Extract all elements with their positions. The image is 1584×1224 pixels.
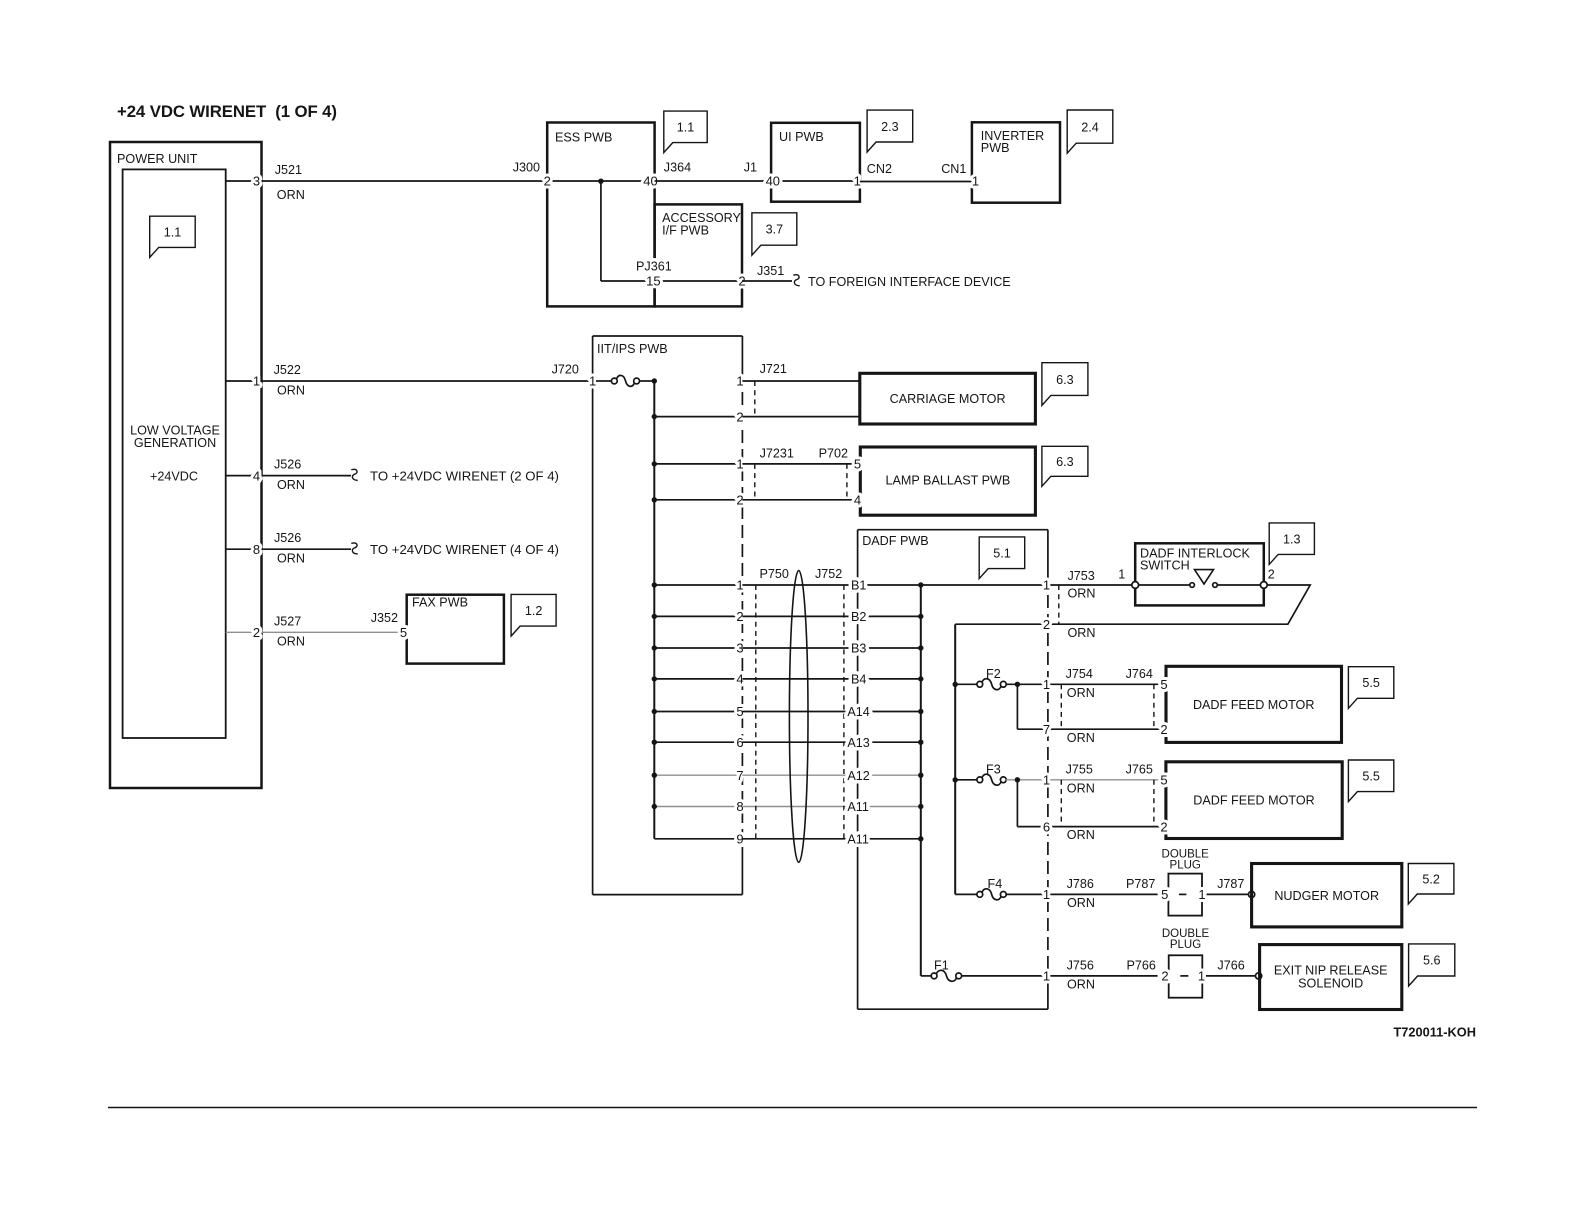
- svg-text:J766: J766: [1217, 959, 1244, 973]
- label J521 / ORN: [275, 163, 305, 202]
- double plug (P787-J787): [1161, 848, 1209, 915]
- svg-text:DADF FEED MOTOR: DADF FEED MOTOR: [1193, 698, 1315, 712]
- wire F3 to J755 pin1 / motor pin5 (gray): [1006, 779, 1166, 781]
- ribbon cable loop (ellipse): [789, 571, 808, 863]
- switch pin 1 terminal: [1118, 567, 1138, 588]
- wire branch to J754 pin7: [1017, 684, 1166, 729]
- wire J7231 pin2 to lamp ballast pin4: [742, 499, 860, 501]
- bus junction at y=616.4: [652, 614, 657, 619]
- ribbon wire B1: [742, 584, 920, 586]
- svg-text:ORN: ORN: [277, 552, 305, 566]
- svg-text:2: 2: [544, 174, 551, 189]
- ACCESSORY pin 2: [738, 274, 745, 289]
- ribbon wire A11: [742, 806, 920, 808]
- label CN2: [867, 162, 892, 176]
- wire bus to IIT edge y=775.2: [654, 774, 742, 776]
- svg-text:ORN: ORN: [1067, 896, 1095, 910]
- label P766: [1127, 959, 1156, 973]
- ribbon wire A11: [742, 838, 920, 840]
- label J352: [371, 611, 398, 625]
- svg-text:ORN: ORN: [277, 383, 305, 397]
- label J527 / ORN: [274, 614, 305, 648]
- svg-text:J764: J764: [1126, 667, 1153, 681]
- svg-text:J787: J787: [1217, 877, 1244, 891]
- fuse F2: [955, 667, 1006, 690]
- note callout 6.3 (carriage motor): [1042, 363, 1088, 406]
- label P787: [1126, 877, 1155, 891]
- svg-text:1.2: 1.2: [525, 604, 543, 618]
- svg-text:1.1: 1.1: [164, 226, 182, 240]
- power unit pin 4 (J52x): [226, 468, 262, 483]
- svg-text:1: 1: [1043, 887, 1050, 902]
- DADF branch bus (vertical x=955): [954, 624, 956, 894]
- svg-text:CARRIAGE MOTOR: CARRIAGE MOTOR: [890, 392, 1006, 406]
- ribbon wire A14: [742, 711, 920, 713]
- wire J351 to foreign interface device: [742, 275, 1011, 289]
- EXIT NIP RELEASE SOLENOID box: [1260, 945, 1402, 1010]
- FAX PWB box: [407, 595, 504, 664]
- svg-text:B2: B2: [851, 610, 866, 624]
- svg-text:T720011-KOH: T720011-KOH: [1393, 1024, 1476, 1039]
- svg-text:B4: B4: [851, 673, 866, 687]
- wire J527 to FAX PWB (gray): [262, 631, 404, 633]
- svg-text:40: 40: [766, 174, 780, 189]
- svg-text:1: 1: [1198, 887, 1205, 902]
- connector P750 (dashed column): [756, 567, 789, 839]
- double plug (P766-J766): [1161, 928, 1209, 998]
- svg-text:J756: J756: [1067, 959, 1094, 973]
- INVERTER PWB box: [972, 122, 1060, 202]
- svg-text:SOLENOID: SOLENOID: [1298, 976, 1363, 990]
- LAMP BALLAST pin 5: [854, 457, 861, 472]
- svg-text:1: 1: [1043, 578, 1050, 593]
- svg-text:J765: J765: [1126, 762, 1153, 776]
- branch bus junction F2: [953, 682, 958, 687]
- wire J753 pin 2 return from switch: [955, 585, 1310, 624]
- label J720: [552, 363, 579, 377]
- svg-text:ORN: ORN: [1067, 781, 1095, 795]
- wire bus to IIT edge y=742.2: [654, 741, 742, 743]
- label J526 / ORN (4 of 4): [274, 531, 305, 565]
- wire bus to IIT edge y=806.5: [654, 806, 742, 808]
- svg-text:POWER UNIT: POWER UNIT: [117, 152, 198, 166]
- connector J753 (dashed): [1058, 585, 1060, 624]
- wire junction down to PJ361 pin 15: [601, 181, 655, 281]
- wire J7231 pin1 to lamp ballast pin5: [742, 463, 860, 465]
- svg-text:A14: A14: [847, 705, 869, 719]
- power unit pin 1 (J52x): [226, 374, 262, 389]
- svg-text:5.5: 5.5: [1362, 676, 1380, 690]
- power unit pin 8 (J52x): [226, 542, 262, 557]
- svg-text:J752: J752: [815, 567, 842, 581]
- label J766: [1217, 959, 1244, 973]
- DADF bus junction at y=742.2: [918, 740, 923, 745]
- note callout 2.4: [1067, 110, 1113, 153]
- svg-text:I/F PWB: I/F PWB: [662, 223, 709, 237]
- svg-text:A13: A13: [847, 736, 869, 750]
- svg-text:ORN: ORN: [1067, 978, 1095, 992]
- wire J526 to +24VDC wirenet (2 of 4): [262, 469, 559, 484]
- svg-text:J753: J753: [1068, 569, 1095, 583]
- note callout 5.5 (motor 1): [1348, 667, 1393, 709]
- svg-text:J754: J754: [1066, 667, 1093, 681]
- DADF bus junction at y=648: [918, 645, 923, 650]
- wire bus to IIT edge y=838.8: [654, 838, 742, 840]
- svg-text:J786: J786: [1067, 877, 1094, 891]
- FAX PWB pin 5: [400, 625, 407, 640]
- svg-text:ESS PWB: ESS PWB: [555, 131, 612, 145]
- svg-text:5: 5: [400, 625, 407, 640]
- svg-text:1: 1: [972, 174, 979, 189]
- ribbon wire B2: [742, 615, 920, 617]
- LAMP BALLAST pin 4: [854, 493, 861, 508]
- svg-text:LAMP BALLAST PWB: LAMP BALLAST PWB: [885, 474, 1010, 488]
- svg-text:SWITCH: SWITCH: [1140, 558, 1190, 572]
- svg-text:UI PWB: UI PWB: [779, 130, 824, 144]
- svg-text:4: 4: [854, 493, 861, 508]
- ribbon wire A12: [742, 774, 920, 776]
- ribbon net labels B1-A11: [847, 579, 869, 847]
- DADF FEED MOTOR box 2: [1166, 762, 1342, 839]
- svg-text:1: 1: [1198, 969, 1205, 984]
- svg-text:J7231: J7231: [760, 447, 794, 461]
- svg-text:ORN: ORN: [277, 188, 305, 202]
- svg-text:CN2: CN2: [867, 162, 892, 176]
- svg-text:A11: A11: [847, 800, 868, 814]
- ESS PWB box: [547, 123, 654, 307]
- svg-text:ORN: ORN: [1068, 587, 1096, 601]
- motor2 pins 5,2: [1160, 773, 1167, 835]
- UI PWB pin 1: [854, 174, 861, 189]
- power unit pin 2 (J52x): [226, 625, 262, 640]
- fuse F1: [921, 959, 962, 982]
- svg-text:PWB: PWB: [981, 141, 1010, 155]
- svg-text:FAX PWB: FAX PWB: [412, 595, 468, 609]
- svg-text:5.5: 5.5: [1362, 770, 1380, 784]
- DADF pin 2 (J753): [1043, 617, 1050, 632]
- wire J526 to +24VDC wirenet (4 of 4): [262, 542, 559, 557]
- svg-text:+24VDC: +24VDC: [150, 469, 198, 483]
- ribbon wire B4: [742, 678, 920, 680]
- wire J721 pin2 to carriage motor: [742, 416, 859, 418]
- nudger motor terminal: [1249, 891, 1255, 897]
- ribbon wire A13: [742, 741, 920, 743]
- svg-text:F3: F3: [986, 762, 1001, 776]
- IIT right edge pin numbers: [736, 374, 743, 847]
- power unit box: [110, 142, 262, 788]
- svg-text:1.3: 1.3: [1283, 532, 1301, 546]
- svg-text:J352: J352: [371, 611, 398, 625]
- DADF bus junction at y=711.5: [918, 709, 923, 714]
- wire inside ESS PWB pin2 to pin40: [547, 180, 654, 182]
- wire double plug to nudger motor: [1207, 893, 1249, 895]
- svg-text:6.3: 6.3: [1056, 455, 1074, 469]
- label J786 / ORN: [1067, 877, 1095, 910]
- svg-text:ORN: ORN: [1067, 686, 1095, 700]
- svg-text:A12: A12: [847, 769, 869, 783]
- svg-text:5: 5: [1161, 887, 1168, 902]
- bus junction at y=381: [652, 378, 657, 383]
- svg-text:2: 2: [1160, 722, 1167, 737]
- svg-text:P750: P750: [760, 567, 789, 581]
- bus junction at y=648: [652, 645, 657, 650]
- svg-text:1: 1: [1043, 677, 1050, 692]
- svg-text:1: 1: [253, 374, 260, 389]
- label J787: [1217, 877, 1244, 891]
- svg-text:ORN: ORN: [277, 478, 305, 492]
- svg-text:J755: J755: [1066, 762, 1093, 776]
- UI PWB box: [771, 123, 860, 202]
- svg-text:PLUG: PLUG: [1170, 859, 1201, 871]
- svg-text:1: 1: [1043, 969, 1050, 984]
- svg-text:DADF PWB: DADF PWB: [862, 534, 928, 548]
- svg-text:2: 2: [1043, 617, 1050, 632]
- fuse F3: [955, 762, 1006, 785]
- note callout 5.1: [979, 537, 1024, 579]
- svg-text:J364: J364: [664, 161, 691, 175]
- motor1 pins 5,2: [1160, 677, 1167, 737]
- svg-text:P702: P702: [819, 447, 848, 461]
- bus junction at y=416.6: [652, 414, 657, 419]
- wire J721 pin1 to carriage motor: [742, 380, 859, 382]
- wire inside UI PWB pin40 to pin1: [771, 180, 860, 182]
- svg-text:P766: P766: [1127, 959, 1156, 973]
- svg-text:J521: J521: [275, 163, 302, 177]
- svg-text:1: 1: [1043, 773, 1050, 788]
- power unit pin 3 (J52x): [226, 174, 262, 189]
- DADF bus junction at y=585: [918, 582, 923, 587]
- svg-text:2.3: 2.3: [881, 120, 899, 134]
- wire bus to IIT edge y=416.6: [654, 416, 742, 418]
- DADF INTERLOCK SWITCH box: [1135, 543, 1264, 605]
- svg-text:TO FOREIGN INTERFACE DEVICE: TO FOREIGN INTERFACE DEVICE: [808, 275, 1011, 289]
- branch bus junction F3: [953, 777, 958, 782]
- svg-text:J522: J522: [274, 363, 301, 377]
- svg-text:B3: B3: [851, 642, 866, 656]
- note callout 6.3 (lamp ballast): [1042, 446, 1088, 486]
- switch contacts and actuator: [1139, 570, 1260, 588]
- CARRIAGE MOTOR box: [860, 373, 1036, 424]
- wire bus to IIT edge y=499.8: [654, 499, 742, 501]
- svg-text:5.6: 5.6: [1423, 954, 1441, 968]
- DADF bus junction at y=775.2: [918, 773, 923, 778]
- svg-text:2: 2: [1161, 969, 1168, 984]
- note callout 1.2: [511, 594, 556, 636]
- LAMP BALLAST PWB box: [860, 447, 1035, 515]
- svg-text:ORN: ORN: [1067, 731, 1095, 745]
- DADF pin 1 (J786): [1043, 887, 1050, 902]
- label J526 / ORN (2 of 4): [274, 458, 305, 492]
- connector J721 (dashed): [755, 362, 787, 417]
- label CN1: [941, 162, 966, 176]
- svg-text:J720: J720: [552, 363, 579, 377]
- svg-text:2: 2: [253, 625, 260, 640]
- wire F1 to J756 pin1 / double plug: [961, 975, 1157, 977]
- svg-text:5.2: 5.2: [1422, 872, 1440, 886]
- IIT/IPS PWB box (edges; right edge dashed between pins): [593, 336, 743, 895]
- ribbon wire B3: [742, 647, 920, 649]
- svg-text:J526: J526: [274, 531, 301, 545]
- ACCESSORY I/F PWB box: [655, 204, 742, 306]
- connector J754-J764 (dashed harness): [1061, 667, 1154, 745]
- svg-text:5: 5: [854, 457, 861, 472]
- svg-text:1: 1: [1118, 567, 1125, 581]
- svg-text:1: 1: [854, 174, 861, 189]
- label J1: [744, 161, 757, 175]
- svg-text:J351: J351: [757, 264, 784, 278]
- note callout 5.5 (motor 2): [1348, 760, 1393, 802]
- note callout 1.3: [1269, 523, 1314, 565]
- wire double plug to solenoid: [1206, 975, 1255, 977]
- label J300: [513, 161, 540, 175]
- connector J755-J765 (dashed harness): [1061, 762, 1154, 842]
- bus junction at y=499.8: [652, 497, 657, 502]
- junction node on ESS internal net: [598, 179, 603, 184]
- svg-text:F1: F1: [934, 959, 949, 973]
- bus junction at y=678.9: [652, 676, 657, 681]
- wire bus to IIT edge y=616.4: [654, 615, 742, 617]
- svg-text:TO +24VDC WIRENET (2 OF 4): TO +24VDC WIRENET (2 OF 4): [370, 469, 559, 484]
- junction after F2: [1015, 682, 1020, 687]
- connector J752 (dashed column): [815, 567, 844, 839]
- svg-text:ORN: ORN: [1068, 626, 1096, 640]
- wire branch to J755 pin6: [1017, 780, 1166, 827]
- svg-text:CN1: CN1: [941, 162, 966, 176]
- drawing number T720011-KOH: [1393, 1024, 1476, 1039]
- NUDGER MOTOR box: [1252, 864, 1402, 927]
- solenoid terminal: [1256, 973, 1262, 979]
- connector J7231 (dashed): [755, 447, 794, 500]
- wire bus to IIT edge y=648: [654, 647, 742, 649]
- svg-text:3.7: 3.7: [766, 223, 784, 237]
- svg-text:5.1: 5.1: [993, 546, 1011, 560]
- svg-text:1.1: 1.1: [677, 121, 695, 135]
- svg-text:5: 5: [1160, 773, 1167, 788]
- footer rule: [108, 1107, 1477, 1109]
- svg-text:6: 6: [1043, 819, 1050, 834]
- label J364: [664, 161, 691, 175]
- junction after F3: [1015, 777, 1020, 782]
- ESS PWB pin 40: [643, 174, 657, 189]
- label J753 / ORN: [1068, 569, 1096, 601]
- DADF bus junction at y=678.9: [918, 676, 923, 681]
- svg-text:J527: J527: [274, 614, 301, 628]
- ACCESSORY pin 15: [646, 274, 660, 289]
- DADF feed bus (vertical): [920, 585, 922, 976]
- wire ESS pin40 to UI pin40: [655, 180, 772, 182]
- svg-text:F4: F4: [988, 877, 1003, 891]
- svg-text:7: 7: [1043, 722, 1050, 737]
- svg-text:DADF FEED MOTOR: DADF FEED MOTOR: [1193, 794, 1315, 808]
- bus junction at y=711.5: [652, 709, 657, 714]
- wire F2 to J754 pin1 / motor pin5: [1006, 683, 1166, 685]
- label J522 / ORN: [274, 363, 305, 397]
- wire bus to IIT edge y=678.9: [654, 678, 742, 680]
- svg-text:1: 1: [589, 374, 596, 389]
- wire PJ361 pin15 to J351 pin2: [655, 280, 742, 282]
- svg-text:PJ361: PJ361: [636, 260, 672, 274]
- ESS PWB pin 2: [544, 174, 551, 189]
- IIT internal bus (vertical): [653, 381, 655, 839]
- wire J522: power unit pin 1 to IIT/IPS J720 pin 1: [262, 380, 593, 382]
- svg-text:3: 3: [253, 174, 260, 189]
- wire bus to IIT edge y=585: [654, 584, 742, 586]
- svg-text:PLUG: PLUG: [1170, 939, 1201, 951]
- low voltage generation block: [123, 169, 226, 738]
- wire bus to IIT edge y=711.5: [654, 711, 742, 713]
- svg-text:5: 5: [1160, 677, 1167, 692]
- svg-text:J721: J721: [760, 362, 787, 376]
- svg-text:P787: P787: [1126, 877, 1155, 891]
- svg-text:J300: J300: [513, 161, 540, 175]
- note callout 5.2: [1408, 864, 1454, 905]
- wire B1 to J753 pin 1 to switch: [921, 584, 1135, 586]
- bus junction at y=775.2: [652, 773, 657, 778]
- svg-text:ORN: ORN: [277, 635, 305, 649]
- DADF bus junction at y=616.4: [918, 614, 923, 619]
- wire CN2 to CN1: [860, 181, 972, 183]
- fuse F4: [955, 877, 1006, 900]
- switch pin 2 terminal: [1260, 567, 1274, 588]
- wire J521: power unit pin 3 to ESS PWB pin 2: [262, 180, 548, 182]
- DADF pins 1,7 (J754): [1043, 677, 1050, 737]
- svg-text:B1: B1: [851, 579, 866, 593]
- DADF FEED MOTOR box 1: [1166, 666, 1342, 742]
- svg-text:+24 VDC WIRENET (1 OF 4): +24 VDC WIRENET (1 OF 4): [117, 102, 337, 121]
- svg-text:ORN: ORN: [1067, 828, 1095, 842]
- svg-text:A11: A11: [847, 833, 868, 847]
- IIT/IPS pin 1 (J720): [589, 374, 596, 389]
- bus junction at y=463.9: [652, 461, 657, 466]
- label ORN (J753 pin2): [1068, 626, 1096, 640]
- label J351: [757, 264, 784, 278]
- svg-text:NUDGER MOTOR: NUDGER MOTOR: [1274, 889, 1379, 903]
- svg-text:15: 15: [646, 274, 660, 289]
- DADF bus junction at y=838.8: [918, 836, 923, 841]
- svg-text:4: 4: [253, 468, 260, 483]
- svg-text:2.4: 2.4: [1081, 120, 1099, 134]
- svg-text:6.3: 6.3: [1056, 373, 1074, 387]
- svg-text:GENERATION: GENERATION: [134, 436, 216, 450]
- DADF pin 1 (J753): [1043, 578, 1050, 593]
- title +24 VDC WIRENET (1 OF 4): [117, 102, 337, 121]
- svg-text:IIT/IPS PWB: IIT/IPS PWB: [597, 342, 668, 356]
- note callout 2.3: [867, 110, 913, 152]
- inline connector on J720 wire: [596, 375, 654, 386]
- DADF pins 1,6 (J755): [1043, 773, 1050, 835]
- svg-text:TO +24VDC WIRENET (4 OF 4): TO +24VDC WIRENET (4 OF 4): [370, 542, 559, 557]
- note callout 3.7: [752, 213, 797, 255]
- bus junction at y=806.5: [652, 804, 657, 809]
- svg-text:2: 2: [1160, 819, 1167, 834]
- wire F4 to J786 pin1 / double plug: [1006, 893, 1158, 895]
- label PJ361: [636, 260, 672, 274]
- DADF pin 1 (J756): [1043, 969, 1050, 984]
- INVERTER pin 1: [972, 174, 979, 189]
- wire bus to IIT edge y=463.9: [654, 463, 742, 465]
- DADF bus junction at y=806.5: [918, 804, 923, 809]
- svg-text:F2: F2: [986, 667, 1001, 681]
- connector P702 (dashed): [819, 447, 848, 500]
- note callout 1.1 (ESS PWB): [664, 111, 707, 153]
- svg-text:J526: J526: [274, 458, 301, 472]
- svg-text:2: 2: [1268, 567, 1275, 581]
- svg-text:EXIT NIP RELEASE: EXIT NIP RELEASE: [1274, 963, 1388, 977]
- bus junction at y=742.2: [652, 740, 657, 745]
- note callout 5.6: [1409, 944, 1455, 986]
- svg-text:8: 8: [253, 542, 260, 557]
- UI PWB pin 40: [766, 174, 780, 189]
